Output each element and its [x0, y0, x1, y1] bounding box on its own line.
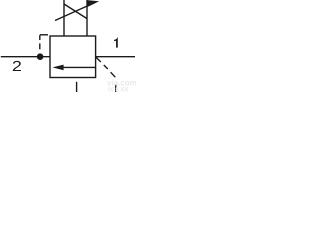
pilot line dashed vertical dash B	[39, 43, 41, 49]
wire port 1 line	[96, 56, 135, 58]
flow arrow shaft	[62, 66, 96, 68]
flow arrow head	[52, 65, 63, 71]
pilot line dashed vertical dash A	[39, 35, 41, 40]
label 1	[114, 38, 118, 48]
label 2	[13, 61, 21, 71]
pilot drain vertical dash	[115, 85, 117, 93]
valve body square	[50, 36, 96, 78]
wire port 2 line	[1, 56, 50, 58]
svg-text:via.com: via.com	[107, 79, 136, 88]
spring right rail	[86, 0, 88, 36]
pilot drain diagonal dash 2	[104, 65, 108, 69]
svg-text:IX 8 XX: IX 8 XX	[108, 88, 128, 93]
pilot line dashed horizontal dash	[40, 34, 48, 36]
spring coil diagonal	[64, 4, 87, 19]
pilot drain diagonal dash 3	[111, 72, 116, 77]
watermark	[107, 79, 137, 94]
spring left rail	[63, 0, 65, 36]
adjustment arrow head	[87, 0, 99, 7]
junction dot	[37, 53, 44, 60]
adjustment arrow line	[55, 3, 95, 21]
drain line bottom dash	[76, 82, 78, 92]
pilot drain diagonal dash 1	[96, 57, 101, 62]
